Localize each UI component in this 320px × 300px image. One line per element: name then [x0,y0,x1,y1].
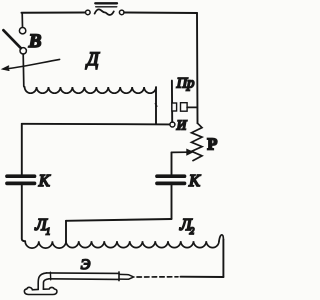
resistor P zigzag [192,123,203,160]
spark gap right electrode square [181,103,188,112]
electrode E cap tick [118,272,120,281]
coil L right end hook [219,235,223,241]
wire left capacitor down to coil L [22,185,25,241]
electrode E handle inner bend [43,279,49,289]
wire bottom horizontal to electrode cable [181,276,224,278]
svg-text:И: И [176,118,188,133]
svg-text:2: 2 [190,226,195,236]
capacitor K right bottom plate [157,182,185,186]
wire coil D right end drop [155,88,157,124]
AC mains source upper bar thick [95,2,117,4]
switch B upper contact circle [19,28,25,34]
svg-text:Р: Р [207,135,217,154]
fuse Pr lead stub [171,81,173,122]
rheostat slider wire with arrow [172,151,188,153]
switch B lever arm [3,30,21,48]
electrode E rod bottom line [49,278,119,281]
wire slider down to right capacitor [171,152,173,174]
wire spark gap to right rail [187,106,197,108]
AC mains source terminal right circle [119,10,124,15]
svg-text:1: 1 [46,227,51,237]
wire mid horizontal bus (taps of capacitors) [66,219,172,221]
electrode E handle outer bend [38,273,46,290]
coil D (choke winding) [25,87,156,93]
wire left drop to left capacitor [21,124,23,175]
svg-text:К: К [188,171,201,190]
switch B upper lead [21,13,23,28]
coil L right section [66,241,219,247]
spark gap left electrode square [172,103,177,111]
capacitor K left bottom plate [7,182,35,186]
wire right end down [222,240,224,278]
svg-text:К: К [38,171,51,190]
wire right capacitor down to mid bus [171,185,173,219]
AC mains source lower bar thin [96,6,117,8]
electrode E tip [120,274,134,279]
electrode E base [24,287,57,294]
wire right rail vertical [196,13,199,123]
electrode E rod joint tick [49,272,51,280]
coil L left section [25,241,66,248]
wire tap down to coil L [65,221,67,241]
AC mains source sine wave [95,9,114,15]
electrode cable dashes [137,276,178,278]
wire top-left horizontal (switch to AC source) [22,12,86,14]
capacitor K left top plate [7,174,35,178]
wire from switch down to coil D [23,54,24,87]
AC mains source terminal left circle [86,10,91,15]
svg-text:Пр: Пр [176,76,195,92]
wire top-right horizontal (AC source to right rail) [124,12,197,15]
joint tick on drop wire [155,104,157,107]
svg-text:Э: Э [81,257,91,273]
node I junction circle [170,122,175,127]
wire horizontal bus to spark gap junction [22,123,170,126]
switch B lower contact circle [20,48,26,54]
electrode E rod top line [47,272,120,275]
capacitor K right top plate [157,174,185,178]
svg-text:Д: Д [85,50,100,70]
adjustment arrow across wire [3,59,59,69]
svg-text:В: В [28,31,42,52]
